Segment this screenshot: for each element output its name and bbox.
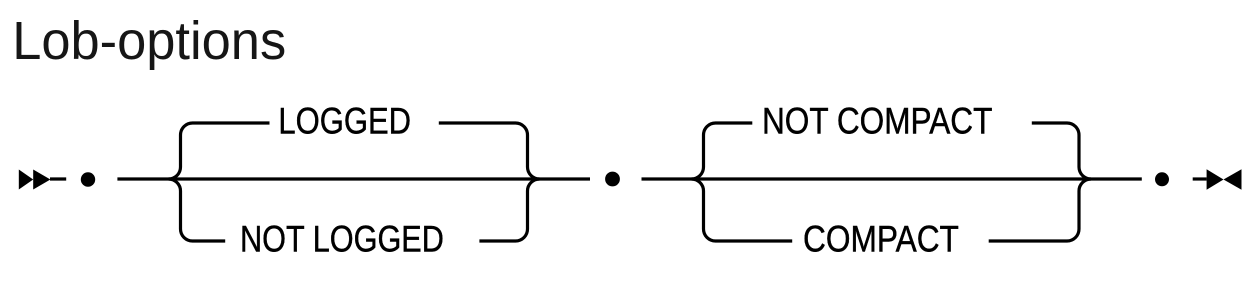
svg-text:NOT LOGGED: NOT LOGGED bbox=[240, 219, 444, 260]
svg-text:Lob-options: Lob-options bbox=[12, 12, 286, 71]
svg-text:NOT COMPACT: NOT COMPACT bbox=[762, 101, 992, 142]
svg-text:LOGGED: LOGGED bbox=[278, 101, 411, 142]
svg-text:COMPACT: COMPACT bbox=[803, 219, 959, 260]
